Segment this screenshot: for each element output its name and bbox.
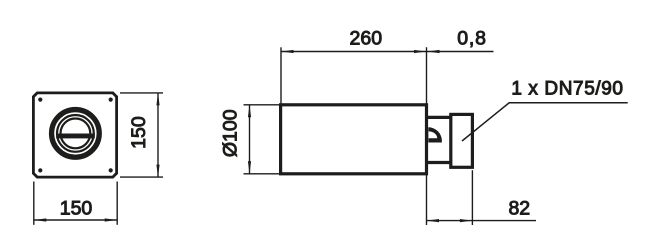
svg-text:1 x DN75/90: 1 x DN75/90	[511, 79, 623, 100]
svg-text:150: 150	[128, 116, 150, 149]
svg-text:150: 150	[60, 197, 93, 219]
svg-text:82: 82	[508, 198, 530, 220]
svg-text:0,8: 0,8	[457, 28, 487, 50]
svg-text:Ø100: Ø100	[219, 109, 241, 157]
svg-text:260: 260	[350, 28, 383, 50]
